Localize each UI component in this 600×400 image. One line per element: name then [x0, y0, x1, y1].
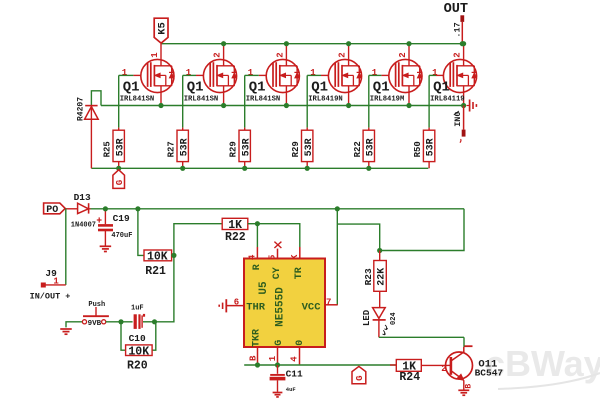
wire: drain bus (top rail) [161, 43, 462, 45]
svg-text:Push: Push [88, 301, 105, 309]
svg-text:BC547: BC547 [475, 368, 504, 379]
junction: C19 / rail [103, 206, 108, 211]
svg-text:TKR: TKR [251, 329, 262, 347]
resistor R23 22K [363, 251, 388, 308]
svg-text:024: 024 [390, 312, 398, 325]
wire: gate of MOSFET 1 to R25 [119, 75, 134, 127]
svg-text:53R: 53R [304, 138, 315, 156]
wire: OUT stub [460, 15, 464, 43]
svg-text:C11: C11 [286, 369, 303, 380]
svg-text:10K: 10K [128, 345, 149, 358]
svg-text:IRL841SN: IRL841SN [246, 95, 281, 103]
wire: VCC riser [336, 209, 338, 305]
svg-text:K5: K5 [157, 22, 169, 35]
svg-text:2: 2 [275, 52, 285, 57]
connector J9 pin 1 [30, 268, 71, 302]
svg-text:NE555D: NE555D [275, 287, 287, 327]
svg-text:1uF: 1uF [131, 304, 144, 312]
svg-text:4uF: 4uF [286, 386, 296, 393]
svg-text:53R: 53R [179, 138, 190, 156]
svg-text:R29: R29 [229, 141, 239, 157]
svg-text:1: 1 [186, 68, 192, 78]
junction dots: source bus [158, 103, 466, 108]
svg-text:Q1: Q1 [311, 79, 328, 95]
wire: R21 up to R22 [174, 224, 222, 256]
junction: R23 top [377, 248, 382, 253]
svg-text:2: 2 [398, 52, 408, 57]
svg-text:4: 4 [290, 356, 300, 362]
svg-text:R20: R20 [127, 360, 148, 373]
svg-text:1N4007: 1N4007 [71, 222, 96, 230]
svg-text:10K: 10K [147, 251, 168, 264]
resistor R21 10K [144, 250, 174, 278]
diode D13 1N4007 [65, 192, 96, 230]
svg-text:G: G [355, 375, 365, 380]
wire: gate of MOSFET 4 to R29 [307, 75, 321, 127]
resistor R22 53R [353, 128, 377, 169]
svg-text:G: G [274, 340, 285, 346]
svg-text:U5: U5 [258, 281, 270, 295]
svg-text:1: 1 [432, 68, 438, 78]
resistor R27 53R [167, 128, 191, 169]
wire: gate resistor ground bus [91, 167, 428, 169]
svg-text:2: 2 [441, 364, 446, 374]
wire: collector riser [463, 337, 465, 347]
svg-text:Q1: Q1 [373, 79, 390, 95]
junction: R22 right [255, 221, 260, 226]
svg-text:R22: R22 [353, 141, 363, 157]
svg-text:TR: TR [294, 267, 305, 279]
junction: R21 right [171, 253, 176, 258]
svg-text:1: 1 [248, 68, 254, 78]
transistor O11 BC547 [441, 346, 503, 395]
junction: OUT / drain bus [460, 41, 465, 46]
svg-text:53R: 53R [115, 138, 126, 156]
capacitor C11 4uF [270, 365, 303, 397]
svg-text:C10: C10 [129, 333, 146, 344]
transistor Q1 (MOSFET 1) [120, 44, 175, 106]
wire: source bus jog to zener [91, 91, 101, 106]
wire: C10 left to R20 [121, 322, 126, 350]
wire: push button to C10 [106, 321, 133, 323]
watermark PCBWay [485, 343, 600, 389]
svg-text:K: K [290, 254, 300, 260]
svg-text:1K: 1K [228, 219, 242, 232]
wire: J9 riser [65, 208, 67, 285]
wire: R22 to pin R(4) [256, 224, 258, 247]
svg-text:R50: R50 [413, 141, 423, 157]
net label IN0 [453, 111, 463, 127]
svg-text:LED: LED [362, 309, 372, 326]
svg-text:R25: R25 [103, 141, 113, 157]
svg-text:53R: 53R [365, 138, 376, 156]
svg-text:2: 2 [213, 52, 223, 57]
svg-text:IRL841SN: IRL841SN [184, 95, 219, 103]
svg-text:53R: 53R [426, 138, 437, 156]
svg-text:6: 6 [234, 298, 239, 308]
transistor Q1 (MOSFET 6) [430, 44, 477, 106]
wire: gate of MOSFET 2 to R27 [183, 75, 196, 127]
svg-text:53R: 53R [241, 138, 252, 156]
wire: LED to collector [379, 336, 464, 338]
transistor Q1 (MOSFET 3) [246, 44, 300, 106]
svg-text:1: 1 [372, 68, 378, 78]
wire: 9VB to ground (left) [66, 322, 82, 328]
junction: TKR / ground bus [255, 362, 260, 367]
junction: C11 / ground bus [275, 362, 280, 367]
svg-text:2: 2 [338, 52, 348, 57]
zener diode R4207 [76, 97, 98, 169]
svg-text:470uF: 470uF [111, 232, 132, 240]
svg-text:OUT: OUT [444, 2, 468, 17]
resistor R22 1K [222, 218, 257, 244]
svg-text:IRL841SN: IRL841SN [120, 95, 155, 103]
svg-text:G: G [115, 180, 125, 185]
svg-text:9VB: 9VB [88, 320, 102, 328]
svg-text:R29: R29 [291, 141, 301, 157]
op-amp U5 NE555D (555 timer) [226, 242, 337, 365]
svg-text:IRL8419M: IRL8419M [370, 95, 405, 103]
svg-text:R: R [252, 264, 263, 270]
svg-text:R27: R27 [167, 141, 177, 157]
svg-text:IRL8419N: IRL8419N [308, 95, 343, 103]
junction dots: resistor bus [116, 166, 371, 171]
svg-text:5: 5 [268, 255, 278, 260]
svg-text:R23: R23 [363, 268, 374, 285]
svg-text:PO: PO [46, 205, 58, 216]
svg-text:IN/OUT +: IN/OUT + [30, 292, 71, 302]
resistor R29 53R [291, 128, 315, 169]
resistor R25 53R [103, 128, 127, 169]
svg-text:1: 1 [122, 68, 128, 78]
svg-text:IRL84119: IRL84119 [430, 95, 465, 103]
ground flag G (bottom bus) [352, 366, 366, 383]
wire: R21 down to C10 [155, 255, 174, 321]
wire: rail right end down [380, 209, 464, 251]
svg-text:R4207: R4207 [76, 97, 85, 121]
svg-text:1: 1 [150, 52, 160, 58]
junction dots: top drain bus [221, 41, 466, 46]
resistor R24 1K [390, 360, 448, 385]
junction: R21 branch / rail [135, 206, 140, 211]
wire: C10 right to R20 [152, 322, 156, 350]
svg-text:THR: THR [246, 302, 266, 314]
ground flag G (gate resistor bus) [113, 170, 125, 189]
wire: IN0 stub [460, 106, 466, 143]
net label -17 [452, 22, 462, 37]
resistor R50 53R [413, 128, 437, 169]
junction: C10 right [152, 319, 157, 324]
wire: gate of MOSFET 3 to R29 [245, 75, 259, 127]
wire: D13 to C19/R21/VCC rail [91, 208, 465, 210]
wire: gate of MOSFET 6 to R50 [429, 75, 436, 127]
svg-text:J9: J9 [45, 268, 57, 279]
svg-text:4: 4 [248, 254, 258, 260]
wire: gate of MOSFET 5 to R22 [369, 75, 382, 127]
LED D24 [362, 308, 398, 338]
wire: source bus [101, 105, 464, 107]
svg-text:1: 1 [310, 68, 316, 78]
svg-text:7: 7 [326, 297, 331, 307]
svg-text:R22: R22 [225, 231, 246, 244]
svg-text:1: 1 [268, 355, 278, 361]
flag PO [44, 203, 66, 216]
svg-text:B: B [248, 355, 258, 361]
svg-text:CY: CY [272, 267, 283, 279]
push button S 9VB [82, 301, 109, 328]
capacitor C10 1uF [129, 304, 155, 344]
rotated ground (THR pin 6) [219, 299, 226, 312]
svg-text:22K: 22K [377, 268, 388, 286]
svg-text:0: 0 [295, 340, 306, 346]
wire: rail branch to R23 [337, 224, 379, 250]
svg-text:C19: C19 [113, 213, 130, 224]
svg-text:R21: R21 [145, 265, 166, 278]
svg-text:B: B [464, 384, 473, 389]
transistor Q1 (MOSFET 5) [370, 44, 423, 106]
wire: rail to R21 [138, 209, 144, 256]
svg-text:2: 2 [453, 52, 463, 57]
wire: R22 to pin TR(K) [257, 224, 299, 247]
resistor R29 53R [229, 128, 253, 169]
svg-text:R24: R24 [399, 371, 420, 384]
transistor Q1 (MOSFET 2) [184, 44, 237, 106]
junction: C10 left [118, 319, 123, 324]
svg-text:D13: D13 [74, 192, 91, 203]
ground (push button left) [60, 329, 72, 334]
svg-text:VCC: VCC [302, 302, 322, 314]
svg-text:IN0: IN0 [453, 111, 463, 126]
transistor Q1 (MOSFET 4) [308, 44, 362, 106]
junction: VCC riser / rail [335, 206, 340, 211]
resistor R20 10K [126, 345, 153, 373]
capacitor C19 470uF [97, 209, 133, 252]
flag K5 [154, 18, 168, 43]
svg-text:Q1: Q1 [249, 79, 266, 95]
svg-text:Q1: Q1 [187, 79, 204, 95]
svg-text:.17: .17 [452, 22, 462, 37]
wire: ground bus (bottom) [244, 364, 396, 366]
rotated ground (right of MOSFET 6 source) [467, 100, 477, 112]
svg-text:Q1: Q1 [123, 79, 140, 95]
svg-text:Q1: Q1 [433, 79, 450, 95]
net label OUT [444, 2, 468, 17]
